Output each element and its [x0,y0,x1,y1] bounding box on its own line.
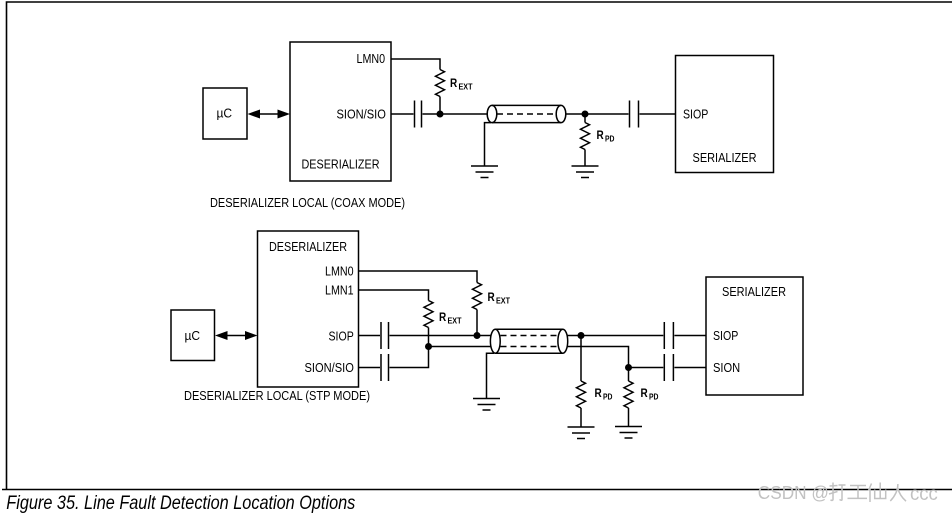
microcontroller box µC (bottom circuit) [171,310,215,361]
svg-text:SION/SIO: SION/SIO [305,360,354,375]
capacitor C5 (SIOP coupling, bottom right) [664,322,673,349]
svg-text:R: R [595,388,603,400]
serializer box (top circuit) [676,56,774,173]
svg-text:CSDN @: CSDN @ [758,483,829,503]
svg-text:PD: PD [649,391,659,401]
bidirectional arrow µC to deserializer (bottom circuit) [215,331,258,340]
ground (R_PD, top) [572,166,599,178]
svg-text:Figure 35. Line Fault Detectio: Figure 35. Line Fault Detection Location… [6,492,355,513]
node A junction dot (top) [437,111,444,118]
svg-text:DESERIALIZER: DESERIALIZER [302,157,380,172]
watermark ccc [910,484,938,505]
label R_PD (bottom right) [641,388,659,401]
svg-text:PD: PD [605,133,615,143]
svg-text:µC: µC [185,328,201,343]
wire SIOP pin to capacitor C3 [359,335,381,337]
resistor R_PD1 (bottom) [577,381,586,408]
label R_EXT (bottom left resistor) [439,312,462,325]
ground (coax shield, top) [471,166,498,178]
svg-text:SERIALIZER: SERIALIZER [722,284,786,299]
label R_PD (top) [597,130,615,143]
wire capacitor C1 to node A [423,113,441,115]
wire R_EXT1 bottom to node D (crosses SIOP line) [428,328,430,347]
serializer box (bottom circuit) [706,277,803,395]
bidirectional arrow µC to deserializer (top circuit) [248,110,291,119]
STP cable shield symbol (bottom) [490,329,567,353]
node C junction dot (bottom, R_EXT2/SIOP line) [474,332,481,339]
svg-text:R: R [439,312,447,324]
wire R_EXT bottom to node A [439,97,441,115]
ground (STP shield, bottom) [473,399,500,411]
wire capacitor C6 to serializer SION [674,367,706,369]
wire STP cable to node E (SIOP line, bottom right) [568,335,582,337]
svg-text:SIOP: SIOP [713,328,738,343]
label R_EXT (top) [450,78,473,91]
capacitor C6 (SION coupling, bottom right) [664,354,673,381]
node B junction dot (top) [582,111,589,118]
wire LMN0 pin to resistor R_EXT (top) [391,59,440,70]
svg-text:R: R [641,388,649,400]
capacitor C1 (deserializer AC coupling, top) [415,101,422,128]
capacitor C3 (SIOP coupling, bottom left) [381,322,389,349]
svg-text:SERIALIZER: SERIALIZER [693,150,757,165]
svg-text:LMN1: LMN1 [325,283,354,298]
svg-text:SIOP: SIOP [683,106,708,121]
wire R_EXT2 bottom to node C [476,310,478,336]
capacitor C2 (serializer AC coupling, top) [630,101,639,128]
wire node E to capacitor C5 [581,335,663,337]
capacitor C4 (SION/SIO coupling, bottom left) [381,354,389,381]
wire STP shield to ground (bottom) [487,353,495,398]
wire node F down to resistor R_PD2 [628,368,630,382]
node D junction dot (bottom, R_EXT1/SION line) [425,343,432,350]
svg-text:R: R [597,130,605,142]
microcontroller box µC (top circuit) [203,88,247,139]
wire capacitor C3 to node C [390,335,478,337]
wire LMN1 pin to resistor R_EXT1 (bottom) [359,290,429,301]
resistor R_PD (top circuit) [581,123,590,150]
wire node C to STP cable [477,335,491,337]
wire R_PD2 to ground [628,408,630,427]
svg-text:R: R [450,78,458,90]
wire coax cable to node B [566,113,585,115]
coax cable shield symbol (top) [487,105,566,122]
node F junction dot (bottom right SION) [625,364,632,371]
wire capacitor C2 to serializer SIOP pin [640,113,676,115]
label R_PD (bottom left) [595,388,613,401]
svg-text:µC: µC [217,106,233,121]
wire SION/SIO pin to capacitor C4 [359,367,381,369]
wire node B to capacitor C2 [585,113,629,115]
watermark chinese character 工 (drawn strokes) [848,486,868,499]
wire coax shield to ground (top) [485,123,492,166]
svg-text:LMN0: LMN0 [325,264,354,279]
wire node A to coax cable [440,113,488,115]
wire node E down to resistor R_PD1 [580,336,582,382]
watermark chinese character 人 (drawn strokes) [890,484,906,501]
svg-text:EXT: EXT [496,295,510,305]
svg-text:ccc: ccc [910,484,938,505]
svg-text:EXT: EXT [459,81,473,91]
wire LMN0 pin to resistor R_EXT2 (bottom) [359,271,478,283]
wire node D to STP cable [429,346,492,348]
wire R_PD to ground (top) [584,150,586,167]
svg-text:EXT: EXT [448,315,462,325]
svg-text:DESERIALIZER LOCAL (COAX MODE): DESERIALIZER LOCAL (COAX MODE) [210,195,405,210]
deserializer box U2 (bottom circuit) [258,231,359,387]
node E junction dot (bottom right SIOP) [578,332,585,339]
watermark CSDN @ [758,483,829,503]
wire node F to capacitor C6 [629,367,664,369]
resistor R_EXT1 (bottom circuit, LMN1) [424,301,433,328]
deserializer box U1 (top circuit) [290,42,391,181]
label R_EXT (bottom right resistor) [488,292,511,305]
wire R_PD1 to ground [580,408,582,427]
svg-text:SIOP: SIOP [329,328,354,343]
ground (R_PD1, bottom) [568,427,595,439]
wire capacitor C4 up to node D [390,347,429,368]
svg-text:SION: SION [713,360,740,375]
resistor R_PD2 (bottom) [624,381,633,408]
resistor R_EXT (top circuit) [436,70,445,97]
svg-text:SION/SIO: SION/SIO [337,106,386,121]
svg-text:R: R [488,292,496,304]
wire STP cable to node F (SION line, bottom right) [568,347,629,368]
svg-text:PD: PD [603,391,613,401]
wire SION/SIO pin to capacitor C1 [391,113,414,115]
svg-text:DESERIALIZER: DESERIALIZER [269,239,347,254]
watermark chinese character 仙 (drawn strokes) [869,483,886,503]
ground (R_PD2, bottom) [615,427,642,439]
watermark chinese character 打 (drawn strokes) [829,483,846,501]
svg-text:LMN0: LMN0 [357,51,386,66]
wire node B down to resistor R_PD (top) [584,114,586,123]
svg-text:DESERIALIZER LOCAL (STP MODE): DESERIALIZER LOCAL (STP MODE) [184,388,370,403]
wire capacitor C5 to serializer SIOP [674,335,706,337]
resistor R_EXT2 (bottom circuit, LMN0) [473,283,482,310]
